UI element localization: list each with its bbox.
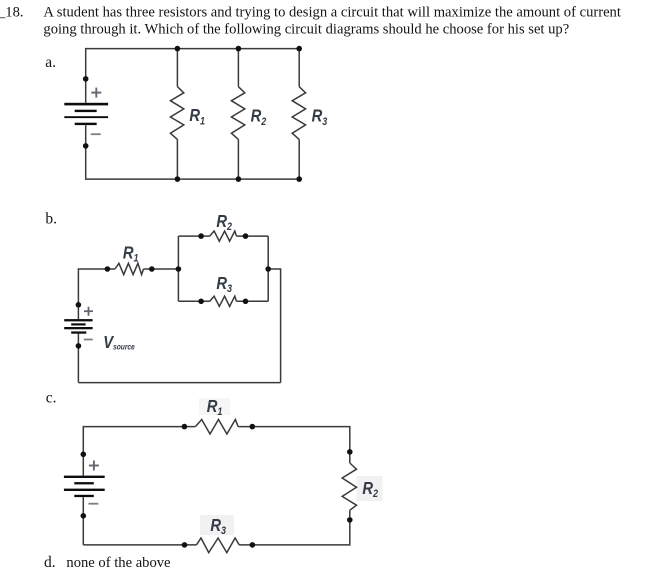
svg-text:a.: a. [45, 54, 56, 71]
svg-text:none of the above: none of the above [66, 555, 170, 571]
label R2 (circuit b) [216, 211, 232, 233]
node: battery a negative terminal [83, 143, 89, 149]
node: R2 right lead [243, 233, 249, 239]
wire: c right vertical lower [239, 510, 350, 545]
node: R3 left lead (c) [182, 542, 188, 548]
wire: R2 branch bottom lead [237, 139, 239, 179]
node: R2 left lead [198, 233, 204, 239]
node: R2 top lead (c) [347, 449, 353, 455]
svg-text:A student has three resistors: A student has three resistors and trying… [43, 4, 621, 20]
battery c plus sign [89, 461, 99, 471]
svg-text:R2: R2 [251, 106, 267, 128]
label R2 background box [357, 476, 383, 501]
svg-text:R2: R2 [216, 211, 232, 233]
wire: b left vertical upper [78, 269, 107, 319]
resistor R1 (circuit c) [195, 420, 238, 435]
label Vsource [103, 333, 134, 353]
node: parallel right junction [265, 266, 271, 272]
label R1 (circuit a) [189, 106, 205, 128]
svg-text:c.: c. [46, 389, 57, 406]
resistor R3 (circuit b) [210, 296, 237, 306]
node: top rail R3 junction [296, 46, 302, 52]
battery b minus sign [84, 339, 93, 341]
node: R1 left lead (c) [182, 424, 188, 430]
resistor R3 (circuit a) [292, 87, 305, 140]
wire: R1 branch top lead [176, 49, 178, 87]
wire: R1 branch bottom lead [176, 139, 178, 179]
wire: b bottom rail [78, 382, 280, 384]
wire: top branch left lead [178, 235, 209, 237]
battery b plus sign [84, 307, 93, 316]
node: bottom rail R3 junction [296, 176, 302, 182]
svg-text:going through it. Which of the: going through it. Which of the following… [43, 22, 569, 38]
node: battery c positive terminal [81, 452, 87, 458]
label R3 (circuit c) [210, 515, 226, 537]
label R3 (circuit a) [312, 106, 328, 128]
svg-text:Vsource: Vsource [103, 333, 134, 353]
node: R3 right lead [243, 299, 249, 305]
battery a minus sign [91, 133, 101, 135]
svg-text:R3: R3 [312, 106, 328, 128]
resistor R3 (circuit c) [196, 538, 239, 553]
battery Vsource (circuit b) [64, 319, 92, 334]
wire: top branch right lead [237, 235, 269, 237]
node: battery a positive terminal [83, 76, 89, 82]
node: R3 right lead (c) [250, 542, 256, 548]
wire: b top rail to R1 [107, 268, 115, 270]
node: bottom rail R2 junction [236, 176, 242, 182]
wire: R3 branch bottom lead [298, 139, 300, 179]
wire: R2 branch top lead [237, 49, 239, 87]
resistor R2 (circuit b) [210, 231, 237, 241]
wire: c left vertical lower [82, 497, 84, 545]
node: R1 left lead [105, 266, 111, 272]
wire: R3 branch top lead [298, 49, 300, 87]
wire: bottom branch right lead [237, 300, 269, 302]
wire: circuit a top rail [86, 49, 300, 103]
svg-text:R1: R1 [189, 106, 205, 128]
node: battery c negative terminal [81, 513, 87, 519]
node: bottom rail R1 junction [175, 176, 181, 182]
resistor R1 (circuit a) [170, 87, 183, 140]
wire: c bottom rail left [83, 544, 196, 546]
svg-text:b.: b. [45, 210, 57, 227]
node: R3 left lead [198, 299, 204, 305]
resistor R2 (circuit a) [231, 87, 244, 140]
wire: c top rail right [238, 427, 350, 463]
wire: parallel box left vertical [177, 236, 179, 301]
node: battery b negative terminal [76, 343, 82, 349]
label R1 (circuit b) [123, 243, 139, 265]
label R2 (circuit c) [362, 478, 378, 500]
label R3 (circuit b) [216, 274, 232, 296]
battery c minus sign [88, 503, 98, 505]
wire: bottom branch left lead [178, 300, 209, 302]
wire: parallel box right vertical [267, 236, 269, 301]
wire: b right side down [268, 269, 280, 383]
node: parallel left junction [176, 266, 182, 272]
svg-text:R3: R3 [216, 274, 232, 296]
wire: circuit a bottom rail [86, 125, 300, 179]
node: top rail R1 junction [175, 46, 181, 52]
svg-text:_18.: _18. [0, 4, 24, 20]
label R3 background box [200, 515, 234, 535]
wire: c top rail left [83, 427, 195, 476]
battery B1 (circuit a) [64, 103, 108, 125]
resistor R2 (circuit c) [342, 463, 356, 510]
label R2 (circuit a) [251, 106, 267, 128]
node: R1 right lead [149, 266, 155, 272]
battery a plus sign [91, 88, 101, 98]
resistor R1 (circuit b) [115, 263, 144, 274]
wire: b left vertical lower [77, 334, 79, 383]
battery B3 (circuit c) [64, 476, 105, 497]
node: top rail R2 junction [236, 46, 242, 52]
svg-text:d.: d. [44, 554, 56, 571]
label R1 background box [199, 398, 230, 415]
node: battery b positive terminal [76, 302, 82, 308]
wire: R1 to parallel junction [144, 268, 179, 270]
node: R2 bottom lead (c) [347, 517, 353, 523]
svg-text:R1: R1 [123, 243, 139, 265]
label R1 (circuit c) [207, 396, 223, 418]
node: R1 right lead (c) [250, 424, 256, 430]
